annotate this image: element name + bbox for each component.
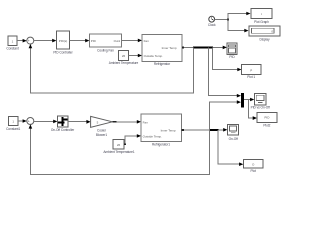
svg-text:Display: Display [259, 37, 270, 41]
svg-text:Refrigerator1: Refrigerator1 [152, 142, 170, 146]
wire Clock to Plot Graph [228, 12, 251, 20]
block Plot [244, 160, 264, 173]
mux Mux [241, 93, 244, 108]
svg-text:Ambient Temperature1: Ambient Temperature1 [103, 150, 134, 154]
svg-text:Refrigerator: Refrigerator [154, 62, 171, 66]
wire Constant1 to Sum2 [18, 119, 27, 123]
constant Constant1 [6, 117, 20, 132]
svg-text:Ambient Temperature: Ambient Temperature [109, 61, 139, 65]
svg-text:26: 26 [122, 54, 126, 58]
svg-text:Outside Temp.: Outside Temp. [143, 134, 162, 138]
wire Mux output branch to Plot2 [248, 100, 257, 121]
subsystem Refrigerator [142, 35, 182, 66]
wire Ambient Temperature to Refrigerator Outside Temp port [129, 54, 143, 58]
constant Ambient Temperature1 [103, 140, 134, 154]
svg-text:+: + [28, 119, 30, 123]
svg-text:On-Off Controller: On-Off Controller [51, 128, 75, 132]
scope PID vs On-Off [251, 93, 270, 109]
relay On-Off Controller [51, 116, 75, 132]
wire feedback bottom: down at x209.6 left along y174.5 up into Sum2 [29, 124, 210, 174]
wire Clock to Display [228, 20, 249, 33]
block Plot2 [257, 113, 277, 128]
svg-text:Plot: Plot [251, 169, 256, 173]
wire Sum1 to PID Controller [34, 39, 57, 43]
wire On-Off Controller to gain [68, 120, 91, 124]
svg-text:Outside Temp.: Outside Temp. [144, 54, 163, 58]
wire Constant to Sum1 [17, 39, 27, 43]
wire Mux to scope PID vs On-Off [244, 98, 254, 102]
svg-text:PID(s): PID(s) [59, 39, 68, 43]
svg-text:PID: PID [264, 116, 270, 120]
wire Cooling Fan to Refrigerator Fan port [122, 39, 143, 43]
svg-text:Out1: Out1 [114, 39, 121, 43]
svg-text:Fan: Fan [143, 120, 149, 124]
constant Constant [6, 36, 19, 51]
sum S2 [27, 118, 34, 126]
svg-text:PID: PID [91, 39, 97, 43]
wire top output to Plot 1 [213, 47, 242, 71]
wire gain to Refrigerator1 Fan port [112, 120, 141, 124]
svg-text:Cooling Fan: Cooling Fan [97, 48, 114, 52]
svg-text:P: P [250, 68, 252, 72]
svg-text:26: 26 [117, 143, 121, 147]
svg-text:Constant: Constant [6, 47, 19, 51]
scope PID [227, 43, 237, 59]
wire feedback top: down at x193.5 left along y93 up into Sum1 [29, 44, 194, 93]
clock Clock [208, 16, 216, 27]
wire Ambient Temperature1 to Refrigerator1 Outside Temp port [124, 134, 141, 145]
wire Sum2 to On-Off Controller [34, 120, 58, 124]
wire Clock trunk with branch [215, 19, 229, 21]
svg-text:Clock: Clock [208, 23, 216, 27]
svg-text:Plot Graph: Plot Graph [254, 20, 269, 24]
svg-text:+: + [28, 39, 30, 43]
svg-text:Plot2: Plot2 [263, 123, 270, 127]
wire Refrigerator output trunk [182, 46, 227, 50]
svg-text:Cooler: Cooler [97, 128, 107, 132]
svg-text:PID vs On-Off: PID vs On-Off [251, 106, 270, 110]
gain Cooler Blower1 [91, 116, 113, 136]
wire PID Controller to Cooling Fan [70, 39, 90, 43]
sum S1 [27, 37, 34, 45]
svg-text:Constant1: Constant1 [6, 127, 20, 131]
scope On-Off [228, 124, 239, 140]
subsystem Refrigerator1 [141, 114, 182, 146]
wire Refrigerator1 output trunk [182, 128, 228, 132]
svg-text:Fan: Fan [144, 39, 150, 43]
svg-text:PID: PID [229, 55, 235, 59]
wire Refrigerator1 output to Plot [218, 130, 243, 166]
svg-text:On-Off: On-Off [229, 137, 238, 141]
wire Refrigerator1 output to Mux input 2 [210, 100, 241, 130]
svg-text:PID Controller: PID Controller [53, 50, 73, 54]
block PID Controller [53, 31, 73, 54]
svg-text:Plot 1: Plot 1 [247, 75, 255, 79]
block Plot 1 [242, 65, 262, 79]
constant Ambient Temperature [109, 51, 139, 66]
block Plot Graph [251, 9, 272, 24]
subsystem Cooling Fan [90, 34, 122, 52]
svg-text:Inner Temp: Inner Temp [162, 46, 177, 50]
wire top output to Mux input 1 [209, 47, 242, 97]
svg-text:Inner Temp: Inner Temp [161, 128, 176, 132]
display Display [249, 26, 280, 41]
svg-text:Blower1: Blower1 [96, 133, 107, 137]
